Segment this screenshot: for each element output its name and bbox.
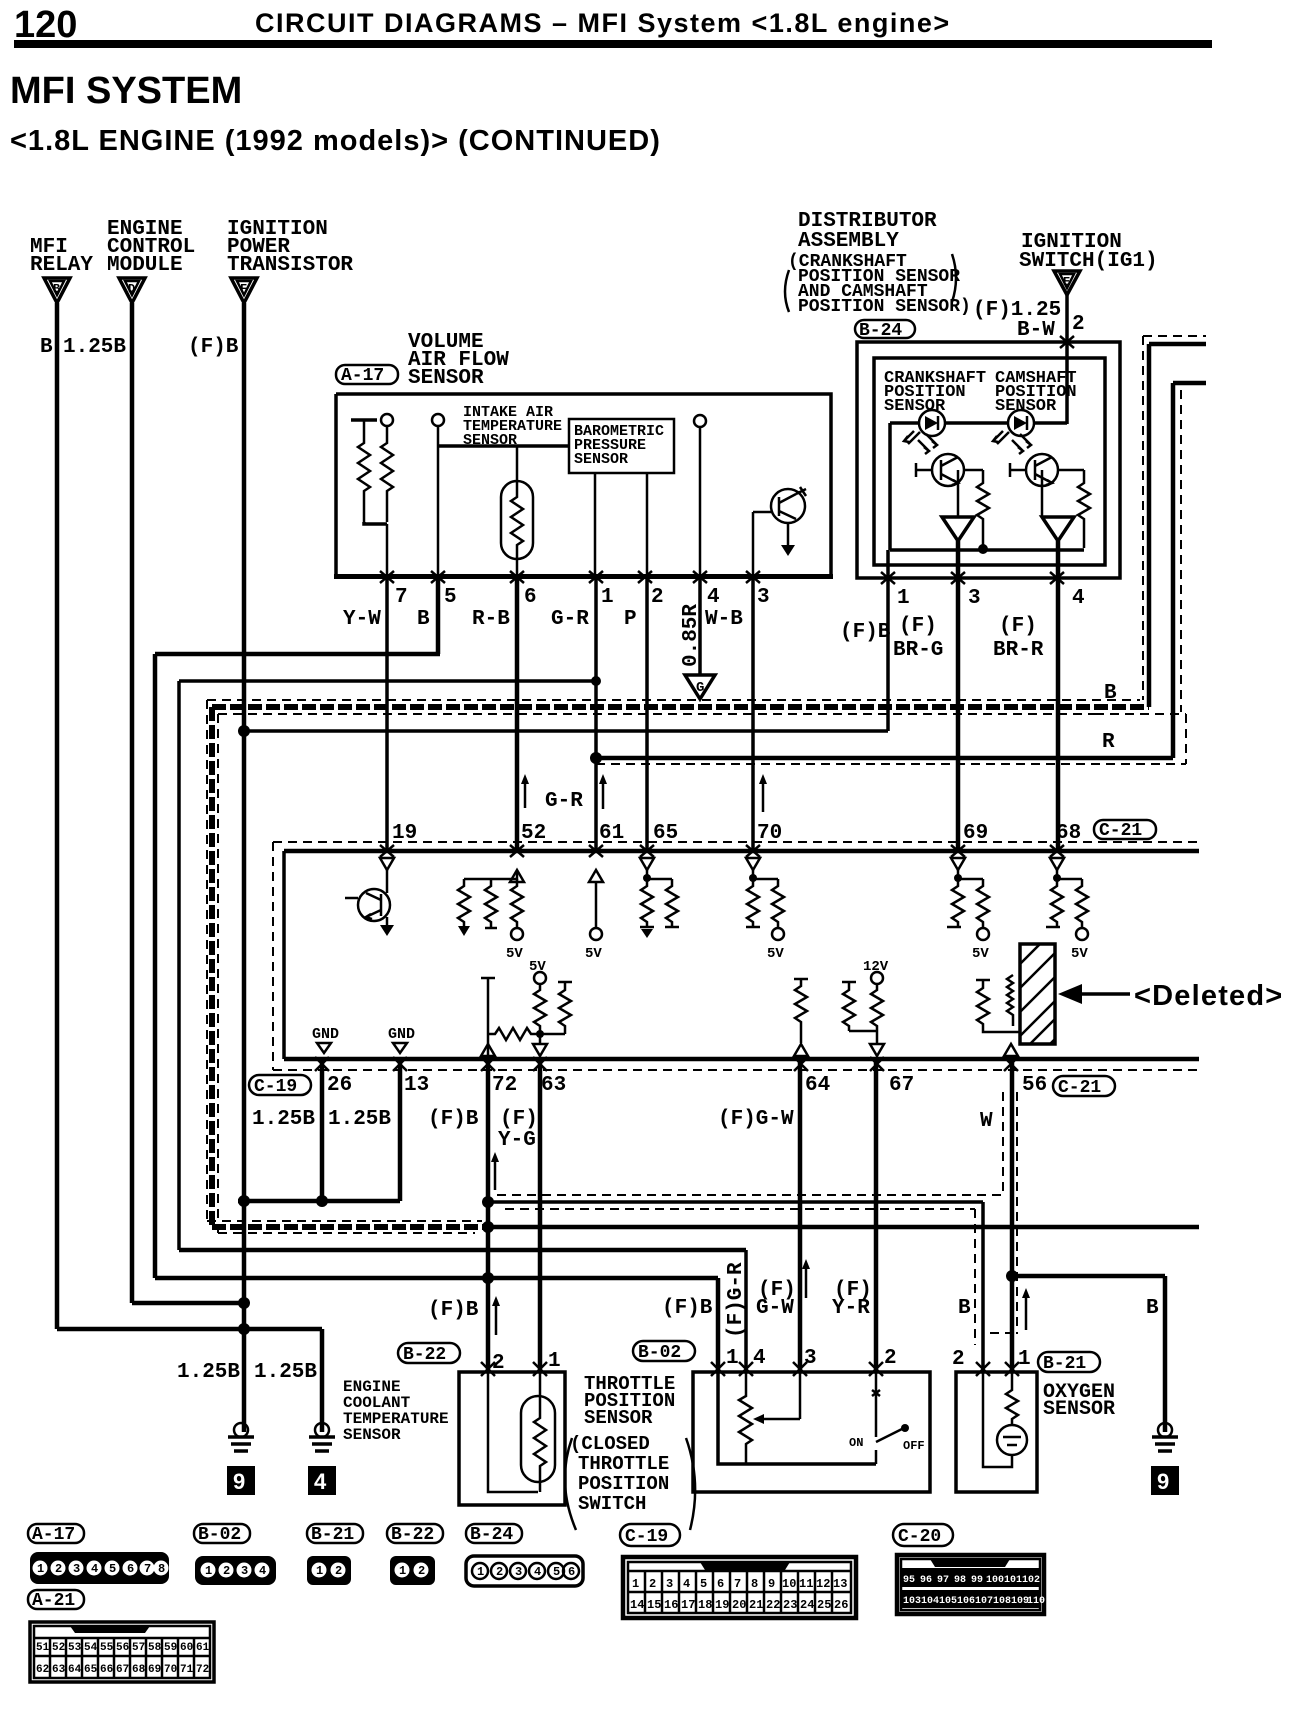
TPS wiper arm [753,1372,800,1424]
svg-text:120: 120 [14,4,77,46]
wire VAF pin4 internal [699,427,702,576]
svg-text:8: 8 [751,1577,758,1591]
svg-text:13: 13 [833,1577,847,1591]
svg-text:C-21: C-21 [1058,1078,1101,1098]
svg-text:1: 1 [897,587,910,610]
wire R-B pin6 to ECU52 [515,576,520,851]
svg-text:C-19: C-19 [625,1527,668,1547]
svg-text:103: 103 [903,1596,921,1607]
svg-text:B-24: B-24 [470,1525,513,1545]
phototransistor crankshaft [916,434,964,486]
svg-text:SENSOR: SENSOR [884,397,946,416]
connector label B-24 bottom [466,1524,522,1545]
oxygen sensor box [956,1372,1037,1492]
svg-text:57: 57 [132,1642,145,1654]
svg-text:2: 2 [649,1577,656,1591]
svg-text:GND: GND [312,1026,339,1043]
junction R1 bottom [978,544,988,554]
svg-text:11: 11 [799,1577,813,1591]
svg-text:SWITCH: SWITCH [578,1493,646,1515]
ignition switch connector triangle E [1054,271,1080,295]
GND pin triangle 26 [317,1043,331,1053]
arrow up on ECT feed wire [492,1296,500,1335]
wire MFI relay vertical [55,303,60,1329]
wire distributor bottom bus [890,548,1084,552]
connector label A-17 bottom [28,1524,84,1545]
svg-text:58: 58 [148,1642,162,1654]
terminal 5V pin68 [1071,928,1088,962]
svg-text:104: 104 [921,1596,939,1607]
svg-text:ASSEMBLY: ASSEMBLY [798,230,899,253]
svg-text:4: 4 [314,1469,327,1494]
pin triangle 70 [746,858,760,870]
TPS potentiometer resistor [739,1372,752,1464]
pin entry marks ECU top [380,845,1064,857]
barometric pressure sensor box [569,419,674,473]
svg-text:3: 3 [666,1577,673,1591]
wire baro out 1 [594,473,597,576]
svg-text:3: 3 [968,587,981,610]
svg-text:BR-G: BR-G [893,639,943,662]
ground symbol 9 right [1151,1423,1179,1495]
svg-text:<1.8L ENGINE (1992 models)> (C: <1.8L ENGINE (1992 models)> (CONTINUED) [10,125,661,157]
svg-text:5: 5 [553,1565,560,1579]
resistor pin63 parallel b [558,982,572,1034]
svg-text:MODULE: MODULE [107,254,183,277]
svg-text:RELAY: RELAY [30,254,93,277]
svg-text:67: 67 [116,1664,129,1676]
svg-text:6: 6 [524,586,537,609]
svg-text:SENSOR: SENSOR [574,451,628,468]
svg-text:4: 4 [707,586,720,609]
svg-text:SENSOR: SENSOR [343,1426,401,1444]
resistor R1 distributor [977,470,989,548]
svg-text:R-B: R-B [472,608,510,631]
svg-text:TRANSISTOR: TRANSISTOR [227,254,353,277]
engine coolant temperature sensor box [459,1372,565,1505]
junction B bus to FB wire [482,1221,494,1233]
svg-text:B-24: B-24 [859,321,902,341]
pin triangle 69 [951,858,965,870]
junction tie-pin26 [316,1195,328,1207]
crankshaft position sensor label [884,369,986,416]
svg-text:SENSOR: SENSOR [584,1407,653,1429]
svg-text:54: 54 [84,1642,98,1654]
svg-text:2: 2 [884,1347,897,1370]
svg-text:5: 5 [109,1562,116,1576]
svg-text:6: 6 [717,1577,724,1591]
svg-text:8: 8 [158,1562,165,1576]
junction tie-IPT [238,1195,250,1207]
svg-text:2: 2 [55,1562,62,1576]
wire PT2 to amp2 [1041,470,1044,517]
svg-text:66: 66 [100,1664,113,1676]
O2 internal ground wire [983,1372,1012,1467]
svg-text:5V: 5V [506,946,523,962]
svg-text:7: 7 [734,1577,741,1591]
junction MFI ground-IPT wire [238,1323,250,1335]
svg-text:OFF: OFF [903,1439,925,1453]
wire ground tie horizontal [238,1199,400,1204]
svg-text:3: 3 [757,586,770,609]
svg-text:3: 3 [804,1347,817,1370]
wire pin72 internal vertical [481,978,495,1057]
op-amp A2 [1042,517,1074,541]
wire distributor pin3 out [956,541,961,851]
connector label B-22 bottom [387,1524,443,1545]
svg-text:1: 1 [477,1565,484,1579]
distributor assembly label [785,210,971,317]
svg-text:52: 52 [52,1642,65,1654]
resistor pin52 a [458,879,470,926]
svg-text:67: 67 [889,1074,914,1097]
resistor R-vaf1 [358,420,370,522]
resistor pin65 a [640,879,654,938]
svg-text:1: 1 [726,1347,739,1370]
terminal 5V pin61 [585,928,602,962]
svg-text:B-21: B-21 [311,1525,354,1545]
svg-text:1: 1 [1018,1348,1031,1371]
svg-text:SENSOR: SENSOR [463,432,517,449]
svg-text:SWITCH(IG1): SWITCH(IG1) [1019,250,1158,273]
svg-text:14: 14 [630,1598,644,1612]
svg-text:5: 5 [700,1577,707,1591]
svg-text:B: B [40,336,53,359]
svg-text:P: P [624,608,637,631]
junction pin70 [749,874,757,882]
svg-text:B-W: B-W [1017,319,1055,342]
volume air flow sensor label [408,331,509,390]
wire label (F)G-W TPS [756,1279,796,1320]
arrow up at pin70 [759,774,767,812]
svg-text:16: 16 [664,1598,678,1612]
svg-text:5V: 5V [1071,946,1088,962]
resistor pin68 a [1046,879,1063,927]
wire off-page B dashed companion top [1143,335,1206,337]
O2 sensor cell [997,1425,1027,1455]
ground symbol 4 [308,1423,336,1495]
svg-text:9: 9 [768,1577,775,1591]
resistor bank pin68 top bar [1057,870,1082,879]
svg-text:2: 2 [418,1564,425,1578]
wire label (F)Y-R TPS [832,1279,872,1320]
wire B pin5 down [436,576,441,654]
bus B horizontal [212,704,1149,710]
connector label B-21 [1038,1352,1100,1374]
junction FB ground-pin72 wire [482,1272,494,1284]
svg-text:B-22: B-22 [391,1525,434,1545]
svg-text:2: 2 [223,1564,230,1578]
svg-text:2: 2 [651,586,664,609]
pin entry marks TPS [711,1362,883,1376]
resistor pin67 a [842,982,856,1031]
pin entry mark B-W at distributor box [1060,336,1074,348]
bus B left dashed companion outer [206,700,208,1221]
svg-text:65: 65 [84,1664,98,1676]
svg-text:ON: ON [849,1436,863,1450]
svg-text:9: 9 [1157,1469,1169,1494]
wire resistor bottoms join [364,522,387,524]
connector drawing B-22 [390,1556,435,1585]
svg-text:B: B [53,282,60,296]
connector drawing A-21 [30,1622,214,1682]
svg-text:3: 3 [241,1564,248,1578]
junction R bus to G-R wire [590,752,602,764]
wire P pin2 to ECU65 [645,576,649,851]
svg-text:1: 1 [316,1564,323,1578]
transistor ECU pin19 [345,870,394,936]
VAF sensor box [334,394,833,579]
engine coolant temperature sensor label [343,1378,449,1444]
svg-text:1.25B: 1.25B [63,336,126,359]
ECU box top line [284,849,1199,854]
wire intake air temp feed [438,444,569,448]
svg-text:105: 105 [939,1596,957,1607]
wire W-B pin3 to ECU70 [751,576,755,851]
wire off-page R vertical [1171,383,1176,758]
svg-text:B-02: B-02 [198,1525,241,1545]
ECT internal ground wire [488,1372,538,1492]
svg-text:7: 7 [144,1562,151,1576]
deleted arrow [1058,984,1130,1004]
ECU connector dashed boundary left [272,842,274,1070]
wire G-R horizontal [179,679,596,683]
wire VAF pin3 internal [752,512,755,576]
bus R dashed box top [1095,713,1186,715]
svg-text:B-21: B-21 [1043,1354,1086,1374]
wire ground9 right vertical [1163,1276,1168,1432]
wire B pin5 horizontal [155,652,440,657]
ignition power transistor connector triangle F [231,278,257,303]
junction FB-shield line [482,1196,494,1208]
bus B lower turn horizontal [212,1224,488,1230]
svg-text:THROTTLE: THROTTLE [578,1453,669,1475]
pin triangle 61 [589,870,603,882]
resistor R2 distributor [1078,470,1090,548]
connector drawing A-17 [30,1552,169,1584]
resistor pin52 b [485,879,497,928]
wire O2 ground vertical [981,1202,985,1372]
dashed shield W right [1016,1092,1018,1334]
svg-text:1.25B: 1.25B [177,1361,240,1384]
arrow up on Y-G wire [491,1152,499,1190]
svg-text:C-21: C-21 [1099,821,1142,841]
resistor pin52 c [511,879,523,928]
svg-text:107: 107 [975,1596,993,1607]
pin triangle 56 [1004,1044,1018,1056]
connector drawing B-24 [466,1556,583,1586]
junction W wire-B right line [1006,1270,1018,1282]
svg-text:POSITION: POSITION [578,1473,669,1495]
svg-text:96: 96 [920,1575,932,1586]
svg-text:5V: 5V [972,946,989,962]
svg-text:1: 1 [601,586,614,609]
bus B dashed companion upper [207,699,1140,701]
resistor pin67 b [871,984,883,1031]
svg-text:1.25B: 1.25B [254,1361,317,1384]
svg-text:F: F [240,282,247,296]
svg-text:17: 17 [681,1598,695,1612]
svg-text:59: 59 [164,1642,177,1654]
svg-text:B: B [958,1297,971,1320]
svg-text:(F)G-R: (F)G-R [725,1262,748,1338]
wire ground shield horizontal to O2 [488,1200,983,1204]
svg-text:26: 26 [327,1074,352,1097]
wire ECM vertical [130,303,135,1303]
pin entry marks distributor bottom [881,572,1064,584]
terminal circle VAF pin7 top [381,414,393,426]
wire G-R to TPS pin4 vertical [744,1250,748,1372]
svg-text:G-R: G-R [551,608,589,631]
pin entry marks VAF bottom [380,571,760,583]
deleted hatched box [1020,944,1055,1044]
wire G-R pin1 down [594,576,598,851]
pin entry marks ECU bottom [315,1057,1018,1071]
wire MFI ground horizontal [57,1327,322,1332]
wire VAF pin7 internal [386,524,389,576]
svg-text:100: 100 [986,1575,1004,1586]
pin entry marks ECT [481,1362,547,1376]
ECM label [107,218,195,277]
MFI relay label [30,236,93,277]
ignition switch label [1019,231,1158,273]
resistor pin70 a [746,879,760,927]
dashed shield O2 ground [974,1209,976,1345]
wire PT1 collector to R1 [964,469,983,472]
pin triangle 64 [794,1044,808,1056]
wire baro out 2 [646,473,649,576]
svg-text:(F)B: (F)B [428,1108,479,1131]
GND pin triangle 13 [393,1043,407,1053]
wire B right horizontal to ground9 [1012,1274,1165,1279]
wire ground4 vertical [320,1329,325,1432]
junction pin63 network [536,1030,565,1043]
ECU box bottom line [284,1057,1199,1062]
resistor bank pin70 top bar [753,870,778,879]
wire left return vertical [888,423,892,550]
svg-text:Y-W: Y-W [343,608,381,631]
svg-text:(CLOSED: (CLOSED [570,1433,650,1455]
svg-text:23: 23 [783,1598,797,1612]
wire FB ground lower horizontal [155,1276,718,1281]
junction G-R branch [591,676,601,686]
svg-text:56: 56 [116,1642,129,1654]
pin entry marks O2 [976,1362,1019,1376]
wire pin13 vertical [398,1059,403,1201]
bus R dashed box right [1185,714,1187,764]
svg-text:(F): (F) [899,615,937,638]
dashed companions B lower [207,1221,482,1233]
svg-text:2: 2 [1072,313,1085,336]
resistor pin64 [794,979,808,1043]
svg-text:69: 69 [148,1664,161,1676]
svg-text:5: 5 [444,586,457,609]
wire B left vertical [153,654,158,1278]
wire B-W ignition switch vertical [1065,295,1069,424]
svg-text:G: G [696,680,704,696]
svg-text:56: 56 [1022,1074,1047,1097]
junction pin68 [1053,874,1061,882]
svg-text:68: 68 [132,1664,146,1676]
distributor outer box [857,342,1120,578]
wire off-page R horizontal top [1173,381,1206,386]
svg-text:(F)B: (F)B [840,621,891,644]
svg-text:2: 2 [496,1565,503,1579]
dashed shield below ground line [505,1208,975,1210]
svg-text:110: 110 [1027,1596,1045,1607]
wire Y-W pin7 to ECU19 [385,576,389,851]
junction pin67 network [849,1031,877,1043]
bus R horizontal [596,756,1173,761]
wire G-R left vertical [177,681,181,1250]
resistor pin56 b [1007,975,1013,1026]
svg-text:22: 22 [766,1598,780,1612]
resistor pin70 b [772,879,784,928]
op-amp A1 [942,517,974,541]
wire PT1 to amp1 [957,470,960,517]
resistor pin63 vertical [534,984,546,1034]
pin triangle 72 [481,1044,495,1056]
resistor pin69 a [947,879,964,927]
connector label C-19 [249,1075,311,1097]
connector label B-24 [855,320,915,341]
wire label (F)Y-G pin63 [498,1108,538,1152]
svg-text:3: 3 [73,1562,80,1576]
resistor pin65 b [665,879,679,927]
svg-text:108: 108 [993,1596,1011,1607]
svg-text:BR-R: BR-R [993,639,1044,662]
wire LED row [890,421,1067,425]
wire off-page B horizontal top [1149,342,1206,347]
camshaft position sensor label [995,369,1077,416]
junction (F)B to IPT wire [238,725,250,737]
svg-text:25: 25 [817,1598,831,1612]
svg-text:4: 4 [683,1577,690,1591]
svg-text:B-22: B-22 [403,1345,446,1365]
resistor horizontal pin72-63 [488,1028,538,1040]
terminal 5V pin69 [972,928,989,962]
svg-text:1: 1 [205,1564,212,1578]
svg-text:3: 3 [515,1565,522,1579]
svg-text:E: E [1063,275,1070,289]
bus R dashed below [596,763,1186,765]
resistor pin68 b [1076,879,1088,928]
svg-text:Y-R: Y-R [832,1297,870,1320]
svg-text:W: W [980,1110,993,1133]
svg-text:106: 106 [957,1596,975,1607]
svg-text:98: 98 [954,1575,966,1586]
svg-text:GND: GND [388,1026,415,1043]
svg-text:(F)B: (F)B [662,1297,713,1320]
LED camshaft [993,410,1034,444]
wire (F)B distributor pin1 horizontal [244,729,888,733]
ground arrow pin52 a [458,926,470,936]
svg-text:13: 13 [404,1074,429,1097]
svg-text:G-W: G-W [756,1297,794,1320]
svg-text:A-17: A-17 [32,1525,75,1545]
throttle position sensor box [693,1372,930,1492]
pin triangle 19 [380,858,394,870]
connector drawing B-02 [195,1556,276,1585]
svg-text:19: 19 [715,1598,729,1612]
svg-text:70: 70 [164,1664,177,1676]
svg-text:95: 95 [903,1575,915,1586]
svg-text:W-B: W-B [705,608,743,631]
arrow up at pin61 [599,774,607,809]
svg-text:21: 21 [749,1598,763,1612]
svg-text:SENSOR: SENSOR [995,397,1057,416]
pin triangle 67 [870,1044,884,1056]
